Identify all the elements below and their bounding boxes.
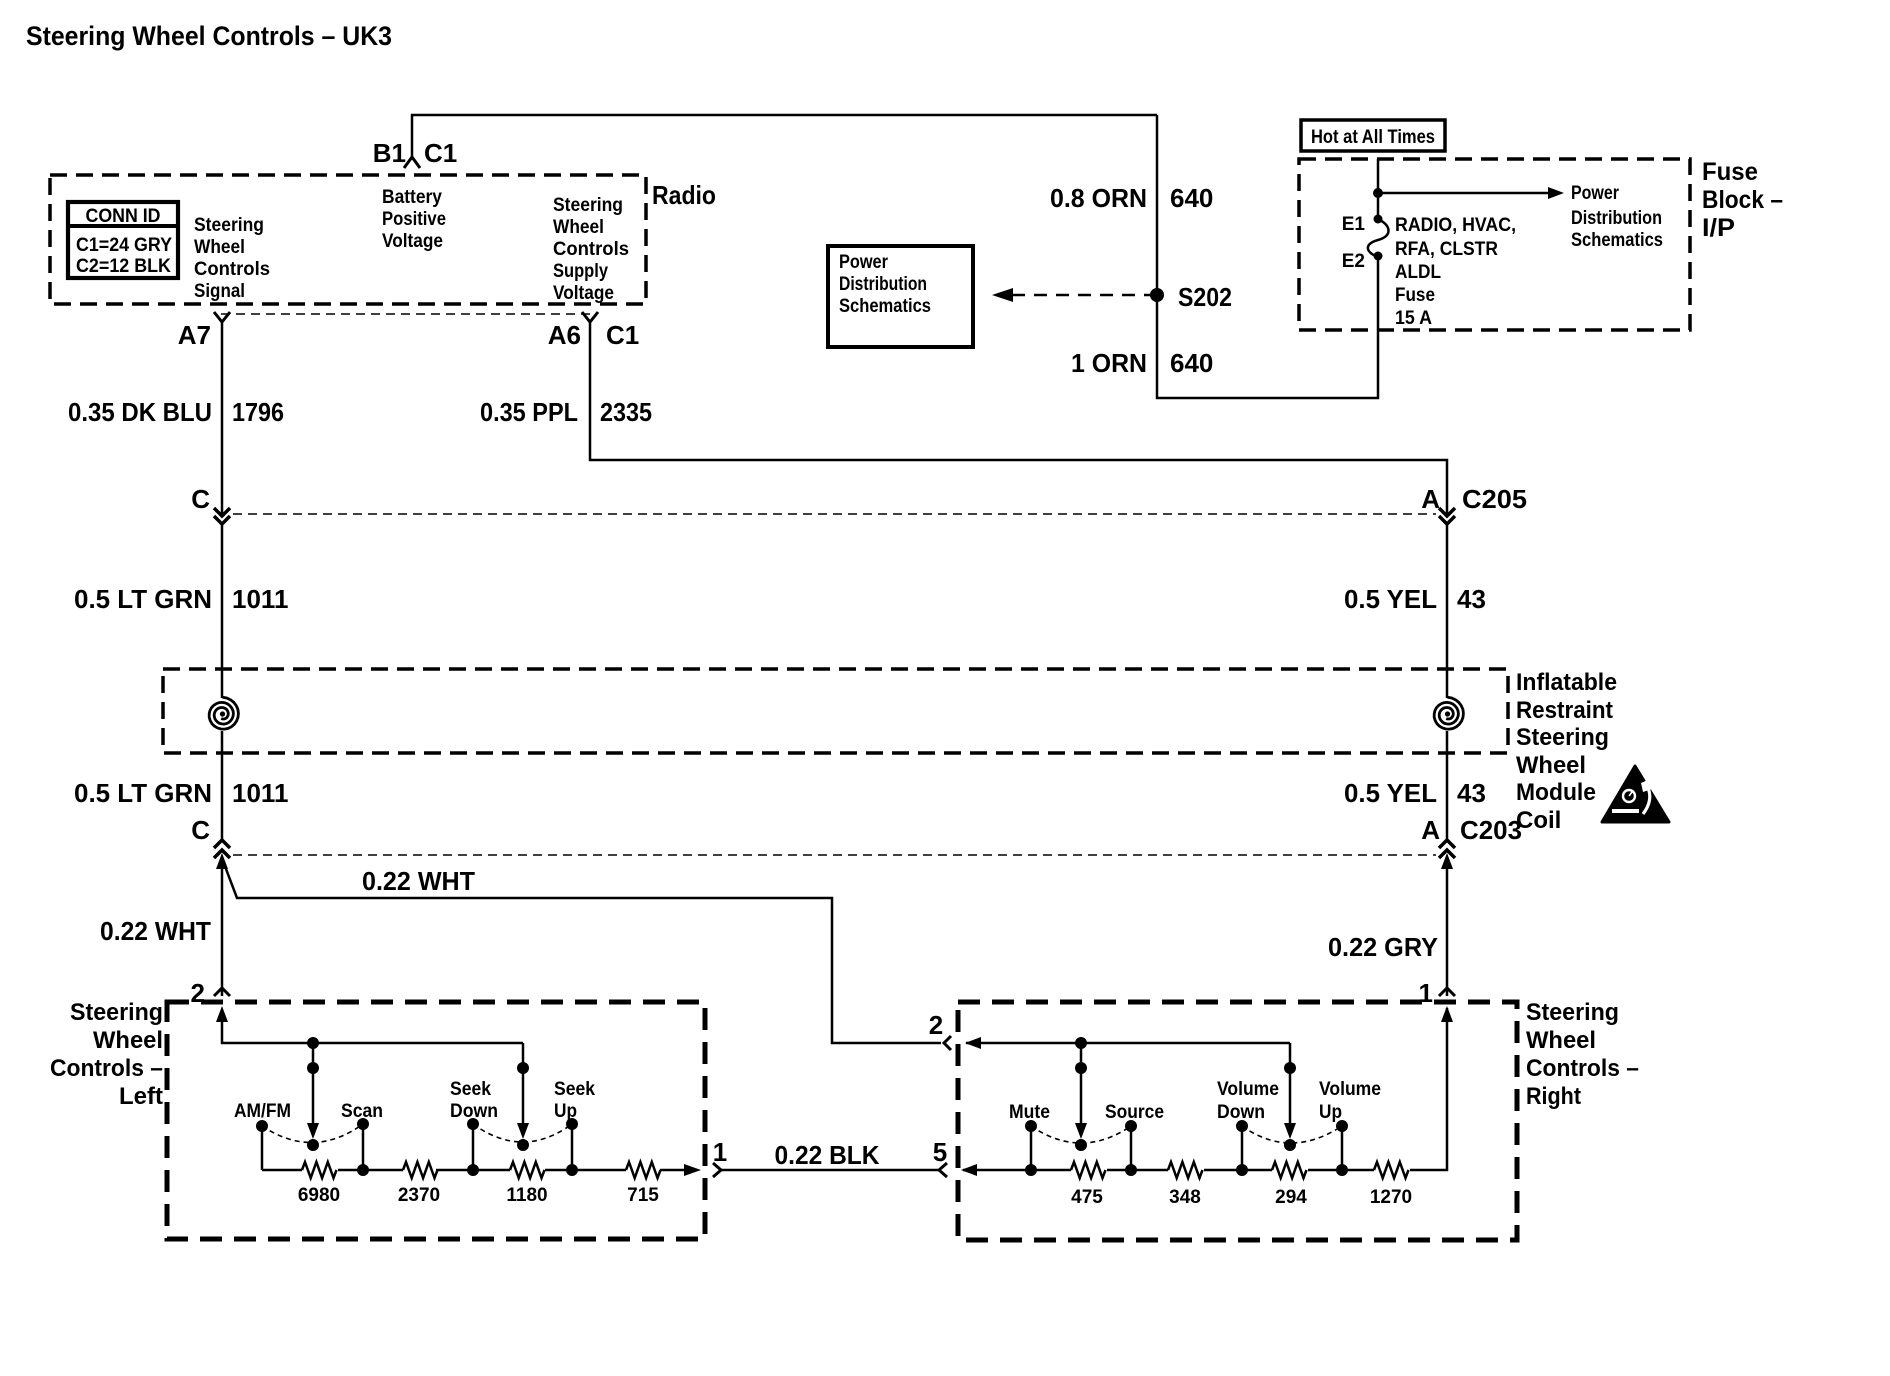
connector chevrons C203 right (1439, 840, 1455, 858)
connector pin A7 chevron (214, 312, 230, 322)
svg-text:15 A: 15 A (1395, 308, 1432, 329)
switch wiper dashed curve VolumeDown-VolumeUp (1242, 1126, 1342, 1143)
svg-text:0.22 WHT: 0.22 WHT (100, 916, 211, 946)
svg-text:C1=24 GRY: C1=24 GRY (76, 235, 172, 256)
svg-text:Supply: Supply (553, 261, 608, 282)
dashed reference arrow to power distribution (1012, 294, 1157, 297)
svg-text:Wheel: Wheel (194, 237, 245, 258)
svg-text:I/P: I/P (1702, 214, 1735, 242)
switch wiper dashed curve SeekDown-SeekUp (473, 1124, 572, 1142)
junction dot (1075, 1037, 1087, 1049)
resistor 1270 (1374, 1162, 1408, 1178)
svg-text:Steering: Steering (194, 215, 264, 236)
svg-text:E2: E2 (1342, 251, 1365, 272)
resistor 348 (1168, 1162, 1202, 1178)
wire: fuse feed from top (1377, 159, 1380, 219)
svg-text:Voltage: Voltage (553, 283, 614, 304)
svg-text:0.8 ORN: 0.8 ORN (1050, 183, 1147, 213)
hot at all times box (1301, 120, 1445, 151)
svg-text:1796: 1796 (232, 397, 284, 427)
arrow out of left box pin 1 (684, 1164, 701, 1176)
svg-text:RADIO, HVAC,: RADIO, HVAC, (1395, 215, 1516, 236)
coil symbol left (209, 697, 238, 729)
wire: 0.22 WHT branch from C203 to right box pin 2 (223, 861, 941, 1043)
svg-text:C1: C1 (424, 138, 457, 168)
svg-text:Down: Down (450, 1101, 498, 1122)
wire below coil left (221, 731, 224, 840)
connector pin A6 chevron (582, 312, 598, 322)
connector chevrons C203 left (214, 840, 230, 858)
svg-text:1180: 1180 (506, 1185, 547, 1206)
steering wheel controls left dashed box (167, 1002, 705, 1239)
splice S202 dot (1150, 288, 1164, 302)
resistor 475 (1071, 1162, 1105, 1178)
svg-text:Inflatable: Inflatable (1516, 669, 1617, 696)
left box resistor ladder wire (262, 1169, 302, 1172)
svg-text:1: 1 (713, 1137, 727, 1167)
svg-text:Controls –: Controls – (50, 1055, 163, 1082)
wire: 0.35 PPL from A6 down and right (590, 322, 1447, 515)
arrow into right box pin 2 (965, 1037, 981, 1049)
svg-text:Steering: Steering (70, 999, 163, 1026)
connector chevrons C205 right (1439, 508, 1455, 524)
svg-text:Distribution: Distribution (1571, 208, 1662, 229)
svg-text:715: 715 (627, 1185, 659, 1206)
switch arm Volume: stem (1289, 1043, 1292, 1128)
svg-text:1011: 1011 (232, 584, 288, 614)
switch Source post (1130, 1126, 1133, 1170)
svg-text:Voltage: Voltage (382, 231, 443, 252)
switch Volume Up post (1341, 1126, 1344, 1170)
svg-text:Distribution: Distribution (839, 274, 927, 295)
svg-text:Restraint: Restraint (1516, 697, 1613, 724)
switch AM/FM post (261, 1126, 264, 1170)
resistor 2370 (403, 1162, 438, 1178)
pin 5 chevron right box (939, 1163, 947, 1177)
svg-text:Block –: Block – (1702, 186, 1783, 214)
switch Seek Down post (472, 1124, 475, 1170)
svg-text:AM/FM: AM/FM (234, 1101, 291, 1122)
svg-text:Steering: Steering (1516, 724, 1609, 751)
wire 0.22 BLK between boxes (721, 1169, 939, 1172)
svg-text:C205: C205 (1462, 484, 1527, 514)
svg-text:Power: Power (1571, 183, 1619, 204)
svg-text:Volume: Volume (1319, 1079, 1381, 1100)
svg-text:B1: B1 (373, 138, 406, 168)
resistor 294 (1272, 1162, 1306, 1178)
svg-text:Scan: Scan (341, 1101, 383, 1122)
coil module dashed box (163, 669, 1508, 753)
svg-text:C: C (191, 815, 210, 845)
svg-text:Coil: Coil (1516, 807, 1561, 834)
svg-text:A: A (1421, 484, 1440, 514)
connector chevrons C205 left (214, 508, 230, 524)
junction dot (307, 1037, 319, 1049)
svg-text:640: 640 (1170, 183, 1213, 213)
svg-text:ALDL: ALDL (1395, 262, 1441, 283)
radio dashed box (50, 175, 646, 304)
svg-text:Controls –: Controls – (1526, 1055, 1639, 1082)
switch Volume Down post (1241, 1126, 1244, 1170)
svg-text:0.5 YEL: 0.5 YEL (1344, 778, 1437, 808)
resistor 6980 (302, 1162, 337, 1178)
resistor 1180 (510, 1162, 545, 1178)
svg-text:0.5 LT GRN: 0.5 LT GRN (74, 778, 212, 808)
svg-text:0.35 DK BLU: 0.35 DK BLU (68, 397, 212, 427)
wire: 0.22 WHT from C203 left down to left box pin 2 (221, 861, 224, 996)
wire: 0.5 YEL coil segment (1446, 524, 1449, 698)
svg-text:C1: C1 (606, 320, 639, 350)
svg-text:Wheel: Wheel (1526, 1027, 1596, 1054)
svg-text:Fuse: Fuse (1395, 285, 1435, 306)
wire: 0.8 ORN vertical at S202 (1157, 115, 1378, 398)
svg-text:CONN ID: CONN ID (86, 206, 161, 227)
svg-text:Hot at All Times: Hot at All Times (1311, 127, 1435, 148)
svg-text:0.22 WHT: 0.22 WHT (362, 866, 475, 896)
svg-text:A: A (1421, 815, 1440, 845)
resistor 715 (626, 1162, 661, 1178)
switch Seek Up post (571, 1124, 574, 1170)
power distribution schematics box (828, 246, 973, 347)
svg-text:E1: E1 (1342, 214, 1366, 235)
svg-text:Module: Module (1516, 779, 1596, 806)
svg-text:1 ORN: 1 ORN (1071, 348, 1147, 378)
svg-text:43: 43 (1457, 778, 1486, 808)
connector chevron pin 2 left box (214, 988, 230, 996)
switch arm AM/FM-Scan: stem (312, 1043, 315, 1128)
svg-text:2370: 2370 (398, 1185, 440, 1206)
svg-text:294: 294 (1275, 1187, 1307, 1208)
wire below coil right (1446, 731, 1449, 840)
svg-text:1270: 1270 (1370, 1187, 1412, 1208)
svg-text:Signal: Signal (194, 281, 245, 302)
svg-text:0.5 YEL: 0.5 YEL (1344, 584, 1437, 614)
junction dot fuse feed (1373, 188, 1383, 198)
svg-text:640: 640 (1170, 348, 1213, 378)
wire: 0.35 DK BLU from A7 down (221, 322, 224, 515)
svg-text:Wheel: Wheel (1516, 752, 1586, 779)
CONN ID table (68, 202, 178, 278)
wire: left box feed (222, 1010, 523, 1043)
coil symbol right (1434, 697, 1463, 729)
svg-text:475: 475 (1071, 1187, 1103, 1208)
switch Mute post (1030, 1126, 1033, 1170)
steering wheel controls right dashed box (958, 1002, 1517, 1240)
svg-text:C2=12 BLK: C2=12 BLK (76, 256, 171, 277)
svg-text:Volume: Volume (1217, 1079, 1279, 1100)
svg-text:0.22 BLK: 0.22 BLK (775, 1140, 880, 1170)
svg-text:Seek: Seek (554, 1079, 595, 1100)
svg-text:Left: Left (119, 1083, 163, 1110)
svg-text:Radio: Radio (652, 180, 716, 210)
svg-text:Schematics: Schematics (1571, 230, 1663, 251)
arrow up inside left box pin 2 (216, 1006, 228, 1022)
switch arm Seek: stem (522, 1043, 525, 1128)
wire: up to pin 1 right box (1410, 1008, 1447, 1170)
fuse block dashed box (1299, 159, 1690, 330)
svg-text:Controls: Controls (194, 259, 270, 280)
connector chevron pin 1 right box (1439, 988, 1455, 996)
connector C1 dashed line (221, 313, 594, 315)
svg-text:Wheel: Wheel (553, 217, 604, 238)
svg-text:2: 2 (929, 1010, 943, 1040)
connector C205 dashed line (233, 513, 1436, 515)
svg-text:43: 43 (1457, 584, 1486, 614)
svg-text:C203: C203 (1460, 815, 1522, 845)
wire: right box feed from pin 2 (966, 1042, 1290, 1045)
svg-text:A7: A7 (178, 320, 211, 350)
svg-text:Up: Up (1319, 1102, 1342, 1123)
arrow up inside right box pin 1 (1441, 1006, 1453, 1022)
fuse element RADIO HVAC RFA CLSTR ALDL fuse 15A (1368, 219, 1389, 257)
svg-text:A6: A6 (548, 320, 581, 350)
arrow to power distribution schematics (1378, 192, 1549, 195)
svg-text:0.22 GRY: 0.22 GRY (1328, 932, 1438, 962)
wire: 0.22 GRY from C203 right down to right box pin 1 (1446, 861, 1449, 996)
switch arm Mute-Source: stem (1080, 1043, 1083, 1128)
arrow up into C203 right (1441, 853, 1453, 869)
svg-text:S202: S202 (1178, 282, 1232, 312)
svg-text:Steering: Steering (553, 195, 623, 216)
svg-text:Down: Down (1217, 1102, 1265, 1123)
arrow into right box pin 5 (961, 1164, 977, 1176)
connector pin B1 chevron (404, 157, 420, 168)
svg-text:Power: Power (839, 252, 889, 273)
svg-text:RFA, CLSTR: RFA, CLSTR (1395, 239, 1498, 260)
svg-text:Controls: Controls (553, 239, 629, 260)
wire: radio B1 to top bus (412, 115, 1157, 157)
svg-text:Battery: Battery (382, 187, 442, 208)
svg-text:C: C (191, 484, 210, 514)
svg-text:2335: 2335 (600, 397, 652, 427)
switch Scan post (362, 1124, 365, 1170)
svg-text:1011: 1011 (232, 778, 288, 808)
svg-text:0.35 PPL: 0.35 PPL (480, 397, 578, 427)
svg-text:Fuse: Fuse (1702, 158, 1758, 186)
svg-text:Source: Source (1105, 1102, 1164, 1123)
switch wiper dashed curve Mute-Source (1031, 1126, 1131, 1143)
svg-text:Up: Up (554, 1101, 577, 1122)
svg-text:Steering: Steering (1526, 999, 1619, 1026)
arrow up into C203 left (216, 853, 228, 869)
svg-text:Steering Wheel Controls – UK3: Steering Wheel Controls – UK3 (26, 21, 392, 51)
airbag warning triangle (1602, 766, 1669, 822)
pin 1 chevron left box (713, 1163, 721, 1177)
pin 2 chevron right box (944, 1036, 951, 1050)
svg-text:6980: 6980 (298, 1185, 340, 1206)
svg-text:Wheel: Wheel (93, 1027, 163, 1054)
svg-text:348: 348 (1169, 1187, 1201, 1208)
svg-text:Right: Right (1526, 1083, 1581, 1110)
svg-text:Seek: Seek (450, 1079, 491, 1100)
right box resistor ladder wire (963, 1169, 1071, 1172)
svg-text:Positive: Positive (382, 209, 446, 230)
connector C203 dashed line (233, 854, 1436, 856)
svg-text:0.5 LT GRN: 0.5 LT GRN (74, 584, 212, 614)
svg-text:Mute: Mute (1009, 1102, 1050, 1123)
svg-text:5: 5 (933, 1137, 947, 1167)
svg-text:Schematics: Schematics (839, 296, 931, 317)
switch wiper dashed curve AM/FM-Scan (262, 1124, 363, 1143)
